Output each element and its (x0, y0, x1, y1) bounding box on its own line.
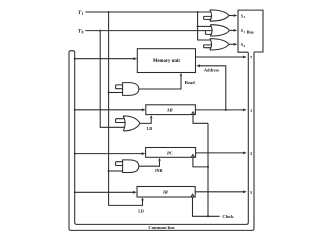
junction address tap on AR output (225, 109, 227, 111)
wire AR output to bus, select 1 (195, 109, 243, 111)
wire LD AR gate output (140, 118, 151, 123)
read gate spare input stubs (116, 85, 123, 89)
register PC box (146, 148, 196, 158)
junction PC clock on trunk (207, 166, 209, 168)
memory unit box (137, 49, 195, 73)
wire bus to PC input (75, 153, 142, 155)
svg-text:1: 1 (250, 108, 252, 113)
bus box (238, 10, 263, 52)
junction bus to memory input (74, 58, 76, 60)
LD AR gate spare input stubs (116, 119, 125, 123)
junction T1 drop (108, 11, 110, 13)
and-gate Read (123, 83, 139, 96)
svg-text:PC: PC (167, 150, 173, 155)
clock triangle IR (191, 194, 194, 197)
or-gate S1 (210, 25, 229, 36)
svg-text:IR: IR (162, 189, 168, 194)
wire S2 gate output (229, 15, 234, 17)
svg-text:5: 5 (250, 190, 252, 195)
svg-text:0: 0 (244, 44, 246, 48)
node T0 label (78, 28, 84, 34)
wire IR clock to clock node (193, 197, 220, 216)
junction T1 tap to Read gate (108, 91, 110, 93)
register AR box (146, 105, 196, 115)
wire T1 vertical drop with IR LD run (109, 12, 143, 205)
register IR box (137, 187, 195, 198)
junction bus to IR input (74, 191, 76, 193)
svg-text:Address: Address (204, 67, 220, 72)
svg-text:LD: LD (147, 126, 153, 131)
wire bus to memory input (75, 58, 134, 60)
svg-text:INR: INR (155, 168, 162, 173)
wire bus to IR input (75, 191, 134, 193)
junction S1 gate tap (197, 25, 199, 27)
svg-text:Memory unit: Memory unit (153, 59, 180, 64)
svg-text:0: 0 (82, 30, 84, 34)
wire T1 to INR gate input (109, 170, 123, 172)
wire T1 to Read gate input (109, 92, 123, 94)
wire T1 vertical to S gates (198, 12, 211, 40)
wire read gate output to memory (139, 76, 181, 89)
clock triangle AR (191, 112, 194, 115)
label S1 (241, 28, 246, 34)
svg-text:2: 2 (244, 15, 246, 19)
label S2 (241, 13, 246, 19)
wire T1 horizontal (85, 11, 211, 13)
or-gate LD AR (123, 116, 140, 131)
svg-text:Read: Read (185, 80, 195, 85)
svg-text:LD: LD (138, 209, 144, 214)
svg-text:7: 7 (250, 55, 252, 60)
S2 gate spare input stubs (204, 16, 212, 19)
wire PC output to bus, select 2 (196, 152, 244, 154)
wire IR output to bus, select 5 (195, 191, 243, 193)
junction bus to AR input (74, 109, 76, 111)
wire memory output to bus, select 7 (196, 56, 244, 58)
S1 gate spare input stub (205, 31, 212, 35)
wire S0 gate output (229, 43, 234, 45)
junction T1 to S-gates vertical (197, 11, 199, 13)
wire common bus loop (69, 51, 254, 231)
or-gate S2 (210, 10, 229, 21)
svg-text:Bus: Bus (247, 29, 254, 34)
wire S1 gate output (230, 29, 234, 31)
junction bus to PC input (74, 153, 76, 155)
INR gate spare input stubs (116, 162, 123, 166)
wire T0 vertical drop to AR LD gate (100, 31, 124, 128)
S0 gate spare input stubs (204, 45, 212, 48)
and-gate INR PC (123, 160, 139, 173)
svg-text:Clock: Clock (222, 214, 234, 219)
wire arrow LD IR up (142, 199, 144, 200)
junction clock trunk bottom (207, 215, 209, 217)
node T1 label (78, 10, 84, 16)
svg-text:2: 2 (250, 151, 252, 156)
wire address from AR output to memory (200, 66, 226, 110)
wire bus to AR input (75, 109, 143, 111)
svg-text:AR: AR (166, 108, 173, 113)
wire INR gate output (139, 161, 160, 166)
clock triangle PC (191, 155, 194, 158)
wire PC clock to trunk (193, 157, 208, 167)
label S0 (241, 42, 246, 48)
junction T0 drop (99, 30, 101, 32)
junction T1 tap to INR gate (108, 170, 110, 172)
wire tap to S1 gate (198, 25, 212, 27)
svg-text:1: 1 (244, 30, 246, 34)
wire T0 horizontal (85, 30, 212, 32)
svg-text:Common bus: Common bus (148, 225, 174, 230)
wire AR clock to trunk (193, 115, 208, 124)
svg-text:1: 1 (82, 12, 84, 16)
or-gate S0 (210, 39, 229, 50)
wire clock trunk vertical (207, 123, 209, 216)
